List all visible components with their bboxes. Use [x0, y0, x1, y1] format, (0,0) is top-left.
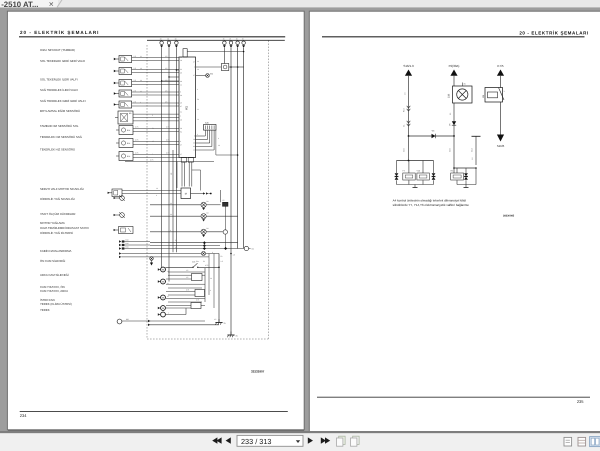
svg-text:M: M — [162, 281, 164, 284]
svg-text:A4 kontrol ünitesinin olmadığı: A4 kontrol ünitesinin olmadığı tekerlek … — [393, 198, 467, 202]
svg-text:1.5: 1.5 — [165, 100, 167, 103]
svg-text:1.5: 1.5 — [165, 67, 167, 70]
svg-text:1.5: 1.5 — [404, 93, 407, 96]
svg-text:S2: S2 — [449, 113, 452, 115]
svg-text:1.5: 1.5 — [165, 55, 167, 58]
svg-text:233 / 313: 233 / 313 — [241, 437, 271, 446]
svg-text:HİDROLİK YAĞ SICAKLIĞI: HİDROLİK YAĞ SICAKLIĞI — [40, 197, 75, 201]
svg-text:HIZLI SEYAHAT (TAMBUR): HIZLI SEYAHAT (TAMBUR) — [40, 48, 75, 52]
svg-text:YEDEK (KLİMA ÜSTESİ): YEDEK (KLİMA ÜSTESİ) — [40, 302, 72, 306]
svg-text:CAM YIKAYICI, ARKA: CAM YIKAYICI, ARKA — [40, 289, 68, 293]
svg-text:2.5: 2.5 — [134, 55, 136, 58]
svg-text:F9(30A): F9(30A) — [449, 64, 460, 68]
svg-text:31: 31 — [236, 335, 238, 338]
svg-text:31: 31 — [464, 83, 466, 86]
svg-text:M: M — [162, 269, 164, 272]
svg-text:0.75: 0.75 — [166, 152, 169, 155]
svg-text:S6: S6 — [252, 248, 254, 251]
svg-text:0.75: 0.75 — [166, 126, 169, 129]
svg-text:1: 1 — [504, 90, 505, 93]
svg-text:B10: B10 — [126, 242, 129, 245]
svg-text:SOL TEKERLEK İLERİ VALFI: SOL TEKERLEK İLERİ VALFI — [40, 78, 78, 82]
svg-text:20 - ELEKTRİK ŞEMALARI: 20 - ELEKTRİK ŞEMALARI — [519, 30, 588, 35]
svg-text:TEKERLEK HIZ SENSÖRÜ SAĞ: TEKERLEK HIZ SENSÖRÜ SAĞ — [40, 135, 82, 139]
svg-text:20 - ELEKTRİK ŞEMALARI: 20 - ELEKTRİK ŞEMALARI — [20, 30, 99, 35]
svg-text:HİDROLİK YAĞ FİLTRESİ: HİDROLİK YAĞ FİLTRESİ — [40, 231, 73, 235]
svg-text:MOTOR YAĞLAMA: MOTOR YAĞLAMA — [40, 221, 65, 225]
svg-text:2.5: 2.5 — [134, 79, 136, 82]
svg-text:silindirlerde Y7, Y14,Y6 elekt: silindirlerde Y7, Y14,Y6 elektromanyetik… — [393, 203, 469, 207]
svg-text:2.5: 2.5 — [134, 100, 136, 103]
svg-text:S16/5: S16/5 — [497, 144, 505, 148]
svg-text:B24: B24 — [127, 142, 130, 145]
svg-text:SAĞ TEKERLEK İLERİ VALFI: SAĞ TEKERLEK İLERİ VALFI — [40, 88, 78, 92]
svg-text:TAMBUR HIZ SENSÖRÜ SOL: TAMBUR HIZ SENSÖRÜ SOL — [40, 124, 79, 128]
svg-text:M: M — [162, 297, 164, 300]
svg-text:M: M — [185, 193, 187, 196]
svg-text:B24: B24 — [127, 129, 130, 132]
svg-text:1.5: 1.5 — [471, 158, 474, 161]
svg-text:1.5: 1.5 — [165, 89, 167, 92]
svg-text:SOL TEKERLEK GERİ GERİ VALFI: SOL TEKERLEK GERİ GERİ VALFI — [40, 59, 85, 63]
svg-text:234: 234 — [20, 413, 27, 418]
svg-text:BOYLAMSAL EĞİM SENSÖRÜ: BOYLAMSAL EĞİM SENSÖRÜ — [40, 109, 80, 113]
svg-text:0.75: 0.75 — [135, 139, 138, 142]
svg-text:2.5: 2.5 — [134, 89, 136, 92]
svg-text:✕: ✕ — [49, 1, 55, 8]
svg-text:HAVA TEMİZLEME/İHRUSAAT SAYICI: HAVA TEMİZLEME/İHRUSAAT SAYICI — [40, 226, 89, 230]
svg-text:0.75: 0.75 — [166, 139, 169, 142]
svg-text:235: 235 — [577, 399, 584, 404]
svg-text:ARKA CAM SİLECEĞİ: ARKA CAM SİLECEĞİ — [40, 273, 69, 277]
svg-text:0.75: 0.75 — [150, 159, 153, 162]
svg-text:0.75: 0.75 — [205, 264, 208, 267]
svg-text:B24: B24 — [127, 155, 130, 158]
svg-text:M: M — [162, 307, 164, 310]
svg-text:S38: S38 — [192, 260, 195, 263]
svg-text:33233907: 33233907 — [251, 369, 265, 373]
svg-text:KABİN HAVALANDIRMA: KABİN HAVALANDIRMA — [40, 249, 71, 253]
svg-text:A1: A1 — [185, 106, 189, 110]
svg-text:B10: B10 — [126, 246, 129, 249]
svg-text:28230085: 28230085 — [503, 215, 515, 218]
svg-text:YEDEK: YEDEK — [40, 308, 50, 312]
svg-text:SAĞ TEKERLEK GERİ GERİ VALFI: SAĞ TEKERLEK GERİ GERİ VALFI — [40, 99, 86, 103]
svg-text:B10: B10 — [126, 239, 129, 242]
svg-text:2.5: 2.5 — [134, 67, 136, 70]
svg-text:M4: M4 — [126, 318, 129, 321]
svg-text:23B: 23B — [448, 93, 451, 98]
svg-text:1.5: 1.5 — [165, 79, 167, 82]
svg-text:0.75: 0.75 — [135, 126, 138, 129]
svg-text:ÖN CAM SİLECEĞİ: ÖN CAM SİLECEĞİ — [40, 259, 65, 263]
svg-text:-2510 AT...: -2510 AT... — [1, 0, 38, 9]
svg-text:0.75: 0.75 — [135, 152, 138, 155]
svg-text:B9: B9 — [129, 112, 131, 115]
svg-text:K7/5: K7/5 — [497, 64, 504, 68]
svg-text:SERVO VALF MOTOR SICAKLIĞI: SERVO VALF MOTOR SICAKLIĞI — [40, 187, 84, 191]
svg-text:31: 31 — [224, 322, 226, 325]
svg-text:TEKERLEK HIZ SENSÖRÜ: TEKERLEK HIZ SENSÖRÜ — [40, 148, 75, 152]
svg-text:S16/1.9: S16/1.9 — [403, 64, 414, 68]
svg-text:YAKIT ÖLÇÜM HÜCRELER: YAKIT ÖLÇÜM HÜCRELER — [40, 212, 75, 216]
